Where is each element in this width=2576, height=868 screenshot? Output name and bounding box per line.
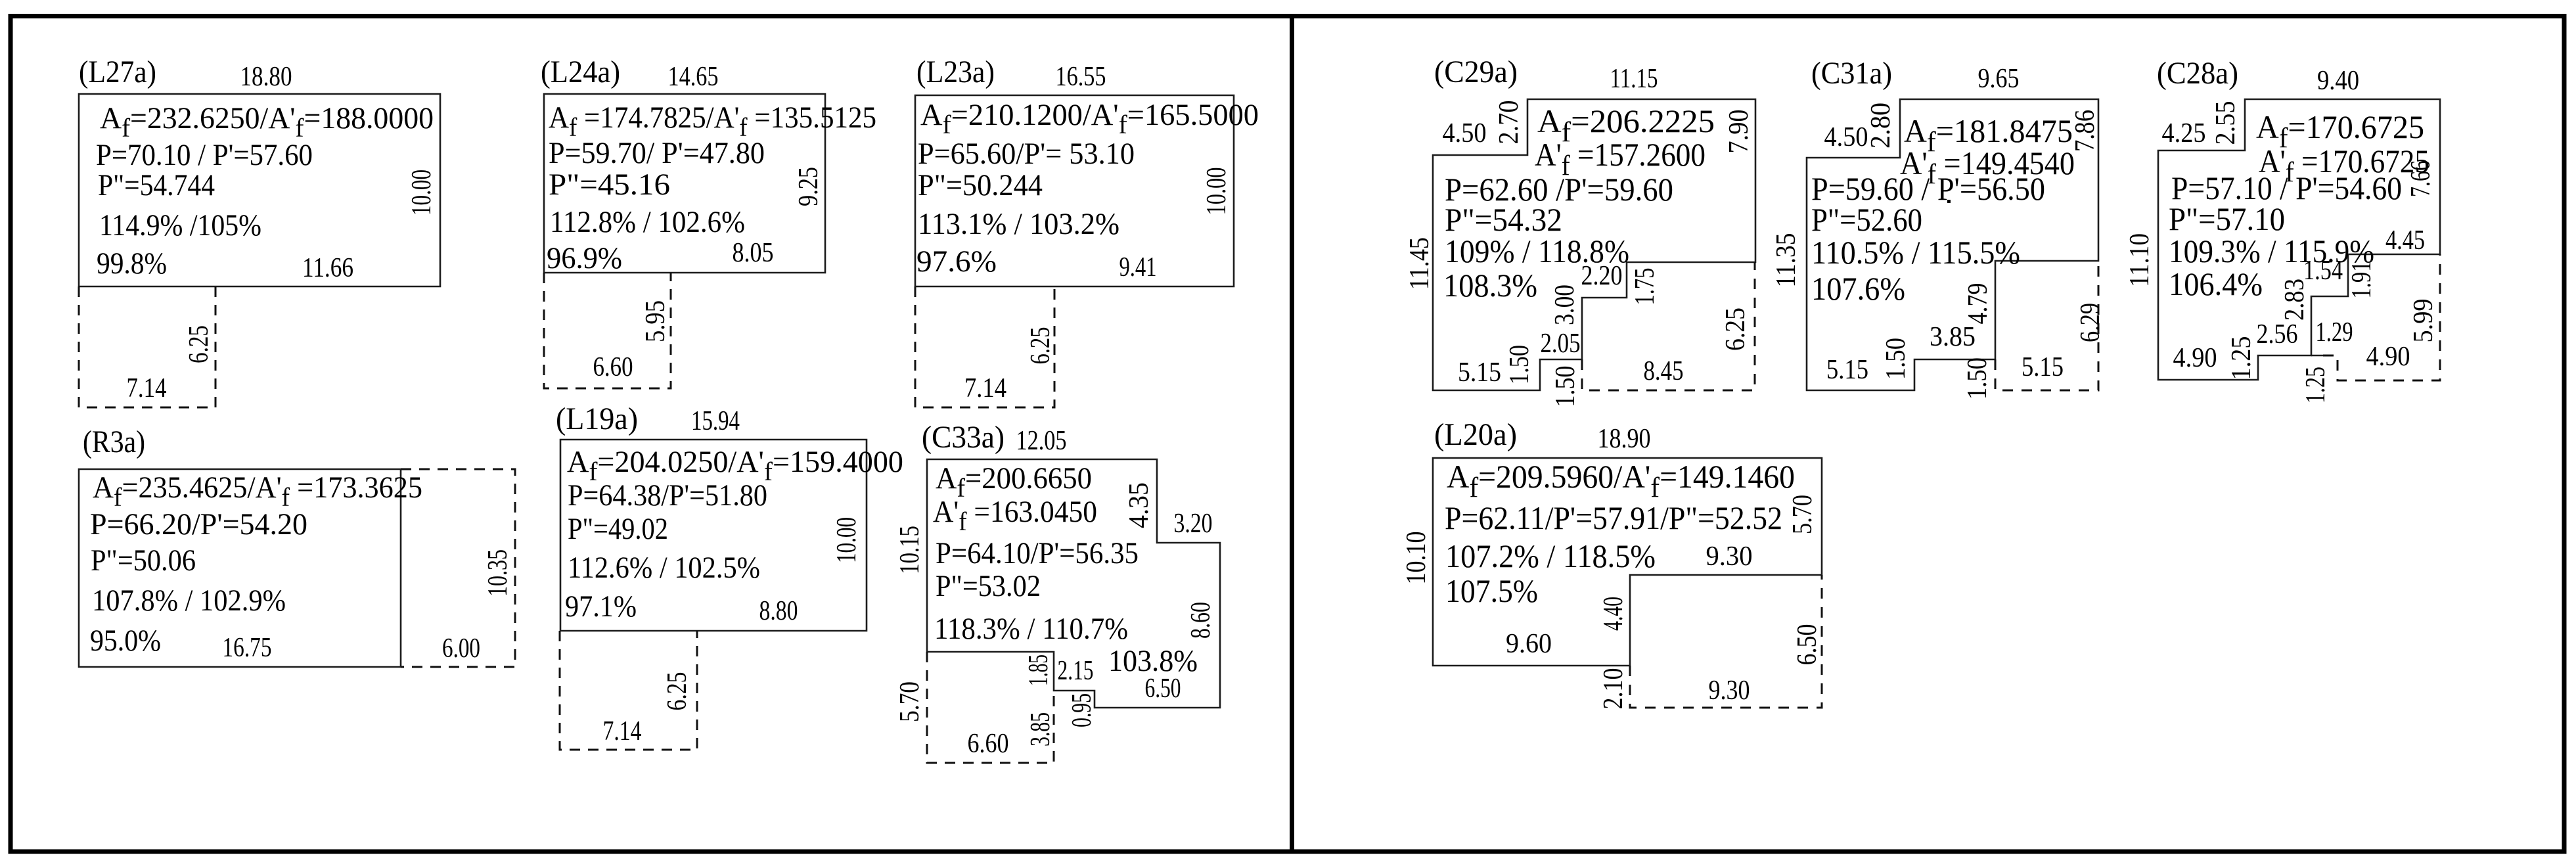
svg-text:118.3% / 110.7%: 118.3% / 110.7% (934, 612, 1128, 646)
svg-text:4.90: 4.90 (2366, 342, 2410, 372)
svg-text:7.90: 7.90 (1724, 110, 1754, 154)
svg-text:8.45: 8.45 (1644, 356, 1684, 386)
svg-text:1.29: 1.29 (2316, 317, 2353, 348)
svg-text:5.99: 5.99 (2408, 299, 2439, 343)
room L24a dashed extension (544, 273, 671, 388)
svg-text:0.95: 0.95 (1067, 693, 1097, 727)
svg-text:9.30: 9.30 (1709, 675, 1750, 706)
room C33a dashed extension (927, 652, 1054, 763)
svg-text:99.8%: 99.8% (97, 246, 167, 281)
svg-text:1.75: 1.75 (1630, 268, 1660, 306)
svg-text:6.25: 6.25 (1721, 308, 1751, 351)
svg-text:3.85: 3.85 (1026, 712, 1056, 746)
room C29a solid outline (1433, 99, 1755, 390)
svg-text:3.20: 3.20 (1174, 509, 1213, 539)
svg-text:1.50: 1.50 (1881, 338, 1911, 380)
svg-text:12.05: 12.05 (1016, 426, 1067, 456)
svg-text:108.3%: 108.3% (1443, 267, 1537, 304)
svg-text:P"=45.16: P"=45.16 (549, 168, 670, 202)
svg-text:16.55: 16.55 (1056, 62, 1106, 92)
svg-text:97.6%: 97.6% (916, 244, 997, 279)
svg-text:7.66: 7.66 (2406, 160, 2436, 197)
svg-text:6.25: 6.25 (662, 672, 692, 711)
svg-text:5.70: 5.70 (895, 681, 925, 722)
room L24a solid outline (544, 94, 825, 273)
svg-text:(R3a): (R3a) (83, 424, 145, 459)
svg-text:96.9%: 96.9% (547, 241, 622, 275)
svg-text:4.79: 4.79 (1963, 283, 1993, 325)
room R3a solid outline (79, 469, 401, 667)
svg-text:7.86: 7.86 (2070, 110, 2100, 152)
svg-text:(C31a): (C31a) (1811, 56, 1892, 91)
svg-text:5.95: 5.95 (641, 300, 671, 342)
svg-text:1.50: 1.50 (1504, 345, 1535, 384)
svg-text:P"=50.06: P"=50.06 (91, 543, 196, 578)
svg-text:9.30: 9.30 (1706, 541, 1753, 572)
svg-text:6.50: 6.50 (1792, 624, 1822, 666)
svg-text:113.1% / 103.2%: 113.1% / 103.2% (918, 207, 1119, 241)
svg-text:P"=52.60: P"=52.60 (1811, 201, 1922, 238)
svg-text:112.6% / 102.5%: 112.6% / 102.5% (568, 551, 760, 585)
svg-text:6.25: 6.25 (184, 325, 214, 363)
svg-text:4.90: 4.90 (2173, 343, 2217, 373)
svg-text:10.00: 10.00 (832, 517, 862, 563)
svg-text:2.15: 2.15 (1058, 656, 1094, 686)
svg-text:7.14: 7.14 (127, 373, 167, 403)
svg-text:8.05: 8.05 (733, 238, 774, 268)
svg-text:1.85: 1.85 (1024, 654, 1054, 686)
room C28a solid outline (2158, 99, 2440, 380)
svg-text:P"=57.10: P"=57.10 (2169, 200, 2285, 237)
svg-text:1.91: 1.91 (2347, 262, 2377, 299)
svg-text:2.70: 2.70 (1494, 101, 1524, 145)
svg-text:9.40: 9.40 (2317, 66, 2359, 96)
room R3a dashed extension (401, 469, 515, 667)
svg-text:15.94: 15.94 (691, 406, 740, 436)
svg-text:5.15: 5.15 (2022, 352, 2064, 382)
svg-text:(L20a): (L20a) (1434, 417, 1517, 452)
svg-text:9.41: 9.41 (1119, 252, 1157, 283)
svg-text:18.80: 18.80 (240, 62, 292, 92)
svg-text:4.40: 4.40 (1598, 597, 1629, 631)
svg-text:(L23a): (L23a) (916, 55, 995, 89)
svg-text:2.55: 2.55 (2211, 101, 2241, 145)
room C31a dashed extension (1995, 261, 2098, 390)
room L19a solid outline (560, 440, 867, 631)
svg-text:4.45: 4.45 (2385, 225, 2425, 256)
room C31a solid outline (1807, 99, 2098, 390)
svg-text:2.10: 2.10 (1598, 668, 1629, 710)
svg-text:P=70.10 / P'=57.60: P=70.10 / P'=57.60 (96, 138, 313, 172)
room L23a dashed extension (915, 286, 1054, 407)
svg-text:P=64.38/P'=51.80: P=64.38/P'=51.80 (568, 478, 767, 513)
svg-text:6.60: 6.60 (968, 729, 1009, 759)
svg-text:4.50: 4.50 (1443, 118, 1487, 148)
svg-text:P=64.10/P'=56.35: P=64.10/P'=56.35 (936, 536, 1139, 570)
svg-text:(L27a): (L27a) (79, 55, 156, 89)
svg-text:106.4%: 106.4% (2169, 265, 2263, 302)
svg-text:1.25: 1.25 (2301, 367, 2331, 403)
room C33a solid outline (927, 459, 1220, 708)
svg-text:112.8% / 102.6%: 112.8% / 102.6% (550, 205, 745, 239)
svg-text:10.10: 10.10 (1401, 532, 1432, 585)
svg-text:109.3% / 115.9%: 109.3% / 115.9% (2169, 233, 2374, 269)
svg-text:107.2% / 118.5%: 107.2% / 118.5% (1445, 537, 1656, 574)
svg-text:10.35: 10.35 (483, 549, 513, 597)
svg-text:9.25: 9.25 (794, 167, 824, 206)
room C29a dashed extension (1582, 262, 1755, 390)
svg-text:P"=50.244: P"=50.244 (918, 168, 1043, 202)
svg-text:7.14: 7.14 (603, 716, 642, 746)
svg-text:107.6%: 107.6% (1811, 270, 1905, 307)
svg-text:P"=53.02: P"=53.02 (936, 569, 1041, 603)
svg-text:8.80: 8.80 (759, 596, 798, 626)
svg-text:(L19a): (L19a) (556, 401, 638, 436)
svg-text:11.45: 11.45 (1405, 237, 1435, 290)
svg-text:(C33a): (C33a) (922, 420, 1005, 455)
svg-text:11.66: 11.66 (302, 253, 353, 283)
svg-text:6.50: 6.50 (1145, 674, 1181, 704)
svg-text:(L24a): (L24a) (541, 55, 620, 89)
svg-text:2.20: 2.20 (1581, 261, 1623, 291)
stray dot mark C31a (1947, 200, 1951, 203)
svg-text:14.65: 14.65 (668, 62, 719, 92)
svg-text:11.35: 11.35 (1771, 233, 1801, 288)
svg-text:(C29a): (C29a) (1434, 55, 1518, 89)
svg-text:6.00: 6.00 (442, 633, 480, 664)
svg-text:P"=49.02: P"=49.02 (568, 512, 668, 546)
svg-text:4.35: 4.35 (1124, 482, 1154, 528)
svg-text:P=65.60/P'= 53.10: P=65.60/P'= 53.10 (918, 137, 1135, 171)
svg-text:10.00: 10.00 (1202, 168, 1232, 216)
svg-text:9.60: 9.60 (1506, 629, 1552, 659)
room L20a dashed extension (1630, 575, 1822, 708)
svg-text:110.5% / 115.5%: 110.5% / 115.5% (1811, 234, 2020, 271)
svg-text:18.90: 18.90 (1598, 424, 1651, 454)
svg-text:2.56: 2.56 (2257, 319, 2298, 350)
svg-text:3.85: 3.85 (1930, 322, 1976, 352)
svg-text:107.8% / 102.9%: 107.8% / 102.9% (92, 583, 286, 618)
svg-text:114.9% /105%: 114.9% /105% (99, 208, 261, 242)
room L19a dashed extension (560, 631, 697, 750)
svg-text:P=59.70/ P'=47.80: P=59.70/ P'=47.80 (549, 136, 765, 170)
room L27a solid outline (79, 94, 440, 286)
room L20a solid outline (1433, 458, 1822, 666)
room L23a solid outline (915, 95, 1234, 286)
svg-text:97.1%: 97.1% (565, 589, 637, 624)
svg-text:3.00: 3.00 (1550, 285, 1580, 325)
svg-text:10.00: 10.00 (407, 170, 437, 216)
room C28a dashed extension (2323, 254, 2440, 380)
svg-text:6.29: 6.29 (2075, 303, 2106, 342)
svg-text:5.70: 5.70 (1788, 495, 1818, 534)
svg-text:8.60: 8.60 (1186, 602, 1216, 639)
svg-text:7.14: 7.14 (964, 373, 1006, 403)
svg-text:5.15: 5.15 (1826, 355, 1868, 385)
svg-text:(C28a): (C28a) (2157, 56, 2238, 91)
svg-text:P=66.20/P'=54.20: P=66.20/P'=54.20 (90, 507, 307, 541)
svg-text:5.15: 5.15 (1458, 357, 1501, 388)
svg-text:P=62.11/P'=57.91/P"=52.52: P=62.11/P'=57.91/P"=52.52 (1445, 499, 1782, 536)
svg-text:6.25: 6.25 (1026, 327, 1056, 365)
svg-text:1.25: 1.25 (2226, 336, 2257, 380)
svg-text:16.75: 16.75 (223, 633, 272, 663)
svg-text:2.83: 2.83 (2280, 279, 2310, 321)
svg-text:11.15: 11.15 (1610, 64, 1658, 94)
svg-text:4.25: 4.25 (2162, 118, 2206, 148)
svg-text:P"=54.744: P"=54.744 (98, 168, 215, 202)
svg-text:2.80: 2.80 (1866, 103, 1896, 148)
svg-text:2.05: 2.05 (1541, 329, 1581, 359)
room L27a dashed extension (79, 286, 215, 407)
svg-text:4.50: 4.50 (1824, 122, 1868, 152)
svg-text:107.5%: 107.5% (1445, 572, 1538, 609)
svg-text:1.50: 1.50 (1550, 366, 1581, 407)
svg-text:9.65: 9.65 (1978, 64, 2020, 94)
svg-text:1.50: 1.50 (1962, 357, 1993, 400)
C28a short solid overshoot segment (2311, 355, 2323, 357)
svg-text:11.10: 11.10 (2125, 233, 2155, 287)
outer border (right panel) (1292, 16, 2565, 852)
outer border (left panel) (11, 16, 1292, 852)
svg-text:6.60: 6.60 (593, 352, 633, 382)
svg-text:95.0%: 95.0% (90, 624, 161, 658)
svg-text:10.15: 10.15 (895, 526, 925, 574)
